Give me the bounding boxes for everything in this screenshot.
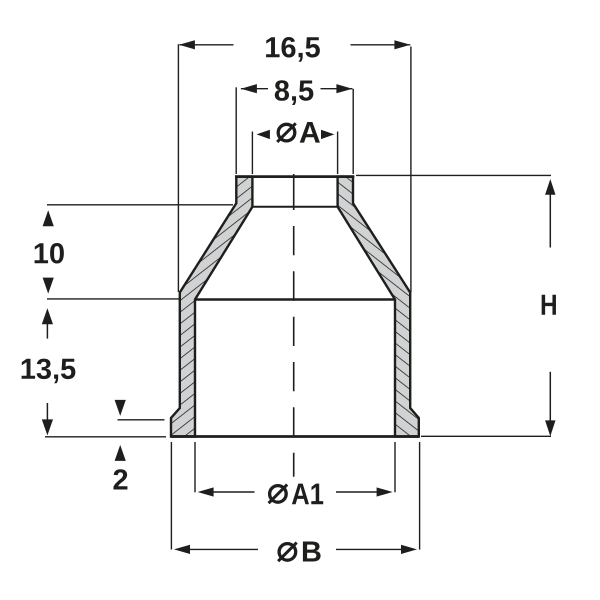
dimension line left segment (ØB) (190, 548, 259, 550)
bottom edge (171, 435, 419, 438)
dimension line right segment (ØB) (336, 548, 402, 550)
dimension 10 (35, 205, 233, 299)
value label 13,5 (22, 359, 76, 384)
arrowhead up (H) (545, 179, 555, 195)
value label A (300, 122, 320, 143)
dimension line upper stem (13,5) (46, 324, 48, 339)
dimension 13,5 (22, 308, 166, 437)
top surface edge (235, 175, 354, 178)
extension line right (ØA) (337, 132, 339, 175)
diameter symbol circle (ØA) (278, 124, 295, 141)
dimension H (356, 175, 556, 436)
dimension line right segment (ØA1) (336, 491, 377, 493)
arrowhead down (13,5) (42, 419, 53, 435)
arrowhead left (8,5) (241, 84, 257, 93)
arrowhead left (ØA1) (198, 487, 214, 496)
centerline (293, 174, 295, 477)
arrowhead right (ØA1) (377, 487, 393, 496)
arrowhead up (10) (43, 210, 54, 226)
arrowhead left (ØA) (257, 130, 270, 139)
dimension line lower stem (H) (549, 372, 551, 422)
value label 8,5 (275, 80, 314, 105)
arrowhead right (8,5) (336, 84, 352, 93)
value label H (542, 295, 556, 315)
arrowhead left (ØB) (174, 545, 190, 554)
diameter symbol slash (ØA) (277, 123, 296, 142)
extension line left (8,5) (235, 87, 237, 174)
arrowhead down (10) (43, 278, 54, 294)
extension line top (H) (356, 174, 551, 176)
dimension ØA (252, 122, 337, 174)
diameter symbol circle (ØA1) (270, 486, 287, 503)
diameter symbol slash (ØA1) (269, 485, 288, 504)
dimension ØB (171, 442, 419, 562)
extension line right (16,5) (410, 47, 412, 293)
value label A1 (292, 484, 323, 505)
arrowhead down (2) (115, 400, 126, 416)
arrowhead right (ØB) (401, 545, 417, 554)
extension line right (8,5) (352, 89, 354, 174)
dimension line upper stem (H) (549, 195, 551, 248)
diameter symbol slash (ØB) (278, 543, 297, 562)
dimension line lower stem (13,5) (46, 403, 48, 420)
value label 16,5 (266, 37, 320, 62)
dimension line left segment (8,5) (241, 88, 268, 90)
arrowhead left (16,5) (179, 40, 195, 49)
dimension 8,5 (236, 80, 353, 174)
dimension line right segment (8,5) (321, 88, 353, 90)
dimension line right segment (16,5) (351, 44, 411, 46)
extension line left (16,5) (177, 44, 179, 292)
right wall section (hatched) (338, 177, 419, 437)
lower shoulder edge (195, 298, 395, 300)
value label 2 (113, 469, 127, 489)
extension line top (10) (47, 204, 233, 206)
diameter symbol circle (ØB) (279, 544, 296, 561)
inner shoulder edge (252, 206, 337, 208)
extension line left (ØA) (251, 132, 253, 175)
arrowhead up (13,5) (42, 308, 53, 324)
dimension 2 (113, 400, 164, 490)
extension line flange step (2) (118, 419, 165, 421)
left wall section (hatched) (171, 177, 252, 437)
extension line right (ØB) (419, 442, 421, 550)
extension line bottom (H) (421, 435, 551, 437)
dimension line left segment (ØA1) (213, 491, 255, 493)
extension line right (ØA1) (394, 442, 396, 492)
dimension line left segment (16,5) (180, 44, 234, 46)
dimension ØA1 (195, 442, 395, 504)
extension line left (ØA1) (194, 442, 196, 492)
extension line bottom (13,5) (45, 436, 166, 438)
arrowhead down (H) (545, 420, 555, 436)
arrowhead up (2) (115, 445, 126, 461)
arrowhead right (ØA) (321, 130, 334, 139)
value label 10 (35, 243, 64, 263)
extension line bottom (10) (47, 298, 179, 300)
extension line left (ØB) (170, 442, 172, 550)
dimension 16,5 (178, 37, 411, 292)
value label B (303, 542, 321, 562)
arrowhead right (16,5) (394, 40, 410, 49)
